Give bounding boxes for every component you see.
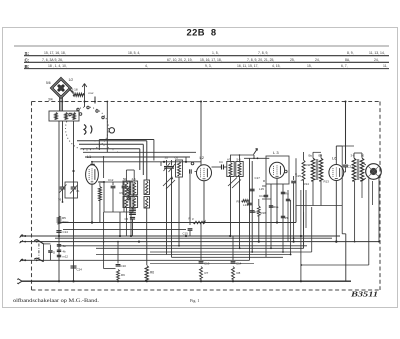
wire L1 down	[91, 186, 93, 223]
wire det vertical a	[249, 158, 251, 260]
svg-text:R7: R7	[205, 271, 209, 275]
svg-text:R: R	[263, 179, 265, 183]
wire T2 bottoms	[230, 177, 232, 191]
wire left vertical b	[62, 121, 64, 183]
switch blade a	[34, 240, 43, 244]
bus wire y257	[172, 256, 284, 258]
svg-text:C10: C10	[121, 264, 127, 268]
wire speaker down	[368, 179, 370, 266]
bus wire y229	[63, 228, 186, 230]
svg-text:R5: R5	[237, 200, 241, 204]
svg-text:R1a: R1a	[273, 205, 279, 209]
capacitor C4 series	[221, 165, 223, 170]
svg-text:C14: C14	[236, 262, 242, 266]
bus wire y238	[55, 237, 332, 239]
wire trimmer drops	[166, 176, 168, 255]
scale row C line	[24, 61, 389, 63]
svg-text:15, 17, 16, 18,: 15, 17, 16, 18,	[44, 51, 66, 55]
return wire a	[265, 184, 267, 257]
svg-text:7, 8, 9, 20, 21, 25,: 7, 8, 9, 20, 21, 25,	[247, 58, 274, 62]
svg-text:C13: C13	[259, 194, 265, 198]
svg-text:C6: C6	[175, 156, 179, 160]
ground bus bottom	[22, 280, 351, 282]
svg-text:16, 11, 15, 17,: 16, 11, 15, 17,	[237, 64, 258, 68]
chassis dashed border bottom	[32, 289, 381, 291]
wire switch long row 5	[85, 156, 190, 158]
resistor R8	[232, 267, 235, 280]
svg-text:R5: R5	[62, 216, 66, 220]
wire output transformer bottom	[354, 181, 356, 242]
svg-text:Fig. 1: Fig. 1	[190, 298, 199, 303]
svg-text:R16: R16	[261, 211, 267, 215]
wire from chassis top right	[345, 102, 347, 165]
svg-text:7b: 7b	[76, 189, 80, 193]
aerial coil box L0	[49, 111, 79, 121]
wire L3 down	[276, 178, 278, 222]
wire bundle box top	[99, 139, 154, 141]
svg-text:C15: C15	[183, 232, 189, 236]
scale row S line	[24, 55, 389, 57]
capacitor T1 c1	[129, 208, 136, 210]
coupling loop wire	[104, 182, 133, 212]
svg-text:18, 5, 4,: 18, 5, 4,	[128, 51, 140, 55]
coil box contact	[79, 113, 82, 116]
terminal arrow a	[20, 235, 24, 238]
capacitor C12	[112, 182, 114, 185]
svg-text:24,: 24,	[315, 58, 320, 62]
output transformer secondary	[360, 158, 364, 181]
wire drop to IFT1 a	[146, 141, 148, 180]
svg-text:C17: C17	[255, 176, 261, 180]
wire T1 bottoms	[132, 219, 134, 236]
band switch contacts	[69, 113, 71, 115]
wire right corner up	[345, 234, 347, 281]
output transformer primary	[352, 158, 356, 181]
svg-text:olfbandschakelaar op M.G.-Ba: olfbandschakelaar op M.G.-Band.	[13, 299, 99, 304]
svg-text:mw: mw	[89, 91, 95, 95]
switch frame	[43, 244, 45, 262]
resistor R16	[257, 206, 260, 216]
wire det vertical b	[251, 161, 253, 252]
svg-text:Bv: Bv	[319, 154, 323, 158]
svg-text:25,: 25,	[290, 58, 295, 62]
wire frame antenna to coupling coil	[70, 90, 75, 95]
wire L2 down	[203, 181, 205, 223]
capacitor C25	[281, 191, 285, 193]
aerial junction on chassis	[84, 101, 86, 103]
svg-text:L 3: L 3	[273, 150, 279, 155]
wire top inner vertical	[106, 102, 108, 153]
resistor R9	[117, 270, 120, 280]
svg-text:L15: L15	[259, 187, 264, 191]
terminal arrow b	[20, 259, 24, 262]
wire trimmer tops	[92, 161, 201, 163]
svg-text:1/2: 1/2	[69, 78, 74, 82]
wire speaker leads	[362, 162, 366, 165]
return wire b	[305, 190, 307, 228]
L2 grid contact circle	[191, 162, 194, 165]
svg-text:3/4: 3/4	[48, 98, 53, 102]
wire switch row 2	[79, 143, 143, 145]
svg-text:4b: 4b	[63, 249, 67, 253]
bus wire y260	[32, 259, 250, 261]
trimmer C5	[166, 160, 168, 166]
IF transformer T1 box d	[131, 197, 138, 208]
svg-text:8, 9,: 8, 9,	[347, 51, 354, 55]
svg-text:Ra: Ra	[285, 192, 289, 196]
band switch rotor coil	[84, 125, 92, 135]
capacitor C22	[265, 190, 267, 194]
switch blade b	[34, 258, 43, 262]
bus wire y265	[150, 262, 254, 264]
svg-text:Bo: Bo	[309, 154, 313, 158]
component D	[49, 245, 51, 250]
svg-text:6, 7,: 6, 7,	[341, 64, 348, 68]
tube L4	[329, 165, 344, 181]
capacitor C17	[250, 188, 255, 190]
svg-text:L1: L1	[87, 154, 92, 159]
wire L2 grid cap from top	[200, 102, 202, 166]
wire det top	[244, 157, 269, 159]
bus wire y254	[96, 254, 291, 256]
return wire c	[300, 190, 302, 236]
svg-text:11,: 11,	[383, 64, 388, 68]
capacitor L2 left stub	[195, 171, 197, 173]
frame antenna outer loop	[51, 78, 72, 99]
svg-text:22B 8: 22B 8	[187, 27, 217, 38]
coupling coil 5,6-18	[73, 93, 84, 96]
aerial symbol	[82, 84, 87, 96]
svg-text:76: 76	[58, 198, 62, 202]
svg-text:4a: 4a	[63, 244, 67, 248]
wire af vertical2	[290, 200, 292, 255]
capacitor C10	[117, 242, 119, 264]
resistor R2 cathode	[98, 187, 101, 201]
wire T2 top link	[231, 155, 255, 162]
resistor R5 left	[57, 216, 60, 224]
resistor R5 mid	[242, 200, 250, 203]
svg-text:9, 3,: 9, 3,	[205, 64, 212, 68]
tube L3 shield box	[266, 156, 289, 184]
svg-text:m12: m12	[63, 255, 69, 259]
bus wire y245	[59, 245, 307, 247]
bus wire y260 left lead	[20, 259, 32, 261]
resistor R4	[128, 186, 131, 200]
chassis dashed border left	[31, 102, 33, 291]
svg-text:4-5: 4-5	[132, 177, 136, 181]
wire left vertical a	[58, 121, 60, 236]
capacitor 4a	[57, 244, 61, 246]
svg-text:R9: R9	[121, 273, 125, 277]
capacitor C19 af	[293, 176, 295, 180]
svg-text:4,: 4,	[145, 64, 148, 68]
avc arrow	[254, 149, 258, 155]
tube L3	[269, 162, 284, 178]
svg-text:R14: R14	[304, 182, 310, 186]
driver transformer secondary	[319, 158, 323, 181]
capacitor C24	[71, 265, 77, 267]
wire L1 plate side	[98, 181, 104, 183]
wire right y205	[296, 205, 342, 207]
wire L2 plate	[212, 166, 222, 168]
svg-text:C24: C24	[77, 268, 83, 272]
svg-text:15,: 15,	[307, 64, 312, 68]
dial cord dots	[94, 140, 97, 143]
wire switch row 1	[77, 140, 147, 142]
capacitor C23	[270, 200, 272, 204]
capacitor C19b	[232, 236, 234, 261]
IF transformer T2 box b	[236, 162, 243, 177]
wire coil to aerial junction	[84, 94, 85, 96]
svg-text:11, 13, 14,: 11, 13, 14,	[369, 51, 385, 55]
wire switch row 3	[81, 148, 140, 150]
L3 side contact	[285, 170, 288, 173]
scale row B line	[24, 68, 389, 70]
wire transformer top	[312, 152, 314, 158]
junction caps	[72, 170, 74, 172]
speaker	[366, 164, 382, 180]
svg-text:L13: L13	[243, 203, 248, 207]
capacitor C13	[123, 182, 125, 185]
capacitor det 288	[286, 198, 290, 200]
driver transformer primary	[311, 158, 315, 181]
svg-text:R13: R13	[324, 180, 330, 184]
svg-text:15, 16, 17, 18,: 15, 16, 17, 18,	[200, 58, 222, 62]
capacitor 4b	[57, 249, 61, 251]
capacitor T1 c2	[129, 212, 136, 214]
wire det cluster v288	[287, 190, 289, 242]
chassis dashed border top	[32, 101, 381, 103]
tube L2	[197, 165, 212, 181]
aerial stub mw	[94, 97, 96, 104]
junction dots chassis top	[62, 101, 64, 103]
capacitor m12	[57, 254, 61, 256]
wire caps to ground bus	[62, 196, 64, 202]
wire L1 grid top	[90, 164, 94, 166]
capacitor C16	[200, 223, 202, 261]
svg-text:4, 15,: 4, 15,	[272, 64, 281, 68]
svg-text:67, 10, 20, 2, 19,: 67, 10, 20, 2, 19,	[167, 58, 193, 62]
frame antenna down leads	[59, 98, 61, 112]
wire af vertical	[295, 158, 297, 222]
capacitor C5 bottom	[130, 216, 135, 218]
IF transformer T1 box c	[123, 197, 130, 208]
IF transformer T1 box a	[123, 181, 130, 195]
IF transformer T1 box b	[131, 181, 138, 195]
wire T1 tops	[125, 170, 127, 181]
bus wire y241 left lead	[20, 241, 32, 243]
svg-text:R8: R8	[237, 271, 241, 275]
trimmer capacitor C2	[73, 171, 75, 187]
svg-text:B3511: B3511	[350, 291, 378, 299]
wire L4 down	[335, 181, 337, 242]
wire L4 top	[335, 146, 337, 165]
wire left vertical a2	[58, 236, 60, 281]
driver transformer core	[315, 159, 317, 180]
svg-text:C14: C14	[63, 230, 69, 234]
svg-text:5/6: 5/6	[46, 81, 51, 85]
T2 trim arrows	[228, 178, 241, 189]
wire cluster drops	[112, 196, 114, 212]
wire transformer bottoms	[312, 181, 314, 206]
padder arrows	[163, 177, 175, 189]
chassis dashed border right	[379, 102, 381, 291]
capacitor C18	[247, 202, 252, 204]
wire L1 cathode	[91, 183, 93, 186]
variable capacitor C1	[62, 183, 64, 187]
svg-text:30kΩ: 30kΩ	[62, 220, 68, 224]
trimmer C6	[171, 160, 173, 166]
svg-text:50: 50	[361, 154, 365, 158]
svg-text:7, 6, 3A 9, 26,: 7, 6, 3A 9, 26,	[42, 58, 63, 62]
svg-text:8A,: 8A,	[345, 58, 350, 62]
frame antenna centre winding	[58, 85, 64, 91]
wire output transformer top	[353, 153, 355, 158]
svg-text:5-3: 5-3	[237, 157, 241, 161]
capacitor C15 small	[189, 174, 191, 225]
oscillator coil box	[176, 160, 183, 177]
wire right v296	[295, 206, 297, 223]
header rule top	[14, 45, 389, 47]
terminal arrow c	[17, 279, 22, 285]
output transformer core	[356, 159, 358, 180]
coil box L11 L12	[144, 180, 150, 195]
bus wire y241	[32, 241, 380, 243]
svg-text:S5: S5	[165, 156, 169, 160]
wire right y233	[342, 233, 346, 235]
tube L1	[86, 165, 99, 185]
resistor R6	[146, 242, 148, 265]
IF transformer T2 box a	[227, 162, 234, 177]
svg-text:5,6 18: 5,6 18	[69, 88, 78, 92]
trimmer box	[65, 182, 78, 198]
svg-text:R11: R11	[306, 163, 311, 167]
capacitor C20	[250, 210, 255, 212]
band switch hub circle	[109, 128, 114, 133]
svg-text:24,: 24,	[374, 58, 379, 62]
svg-text:R6: R6	[150, 271, 154, 275]
wire det cluster h	[262, 198, 271, 200]
svg-text:1, 5,: 1, 5,	[212, 51, 219, 55]
bus wire y236	[32, 235, 341, 237]
svg-text:R: R	[189, 217, 191, 221]
svg-text:7, 8, 9,: 7, 8, 9,	[258, 51, 268, 55]
wire right v300 down	[300, 236, 302, 281]
svg-text:C12: C12	[108, 178, 114, 182]
band switch dotted circle	[108, 128, 109, 129]
capacitor C26	[281, 215, 285, 217]
wire switch long row 4	[83, 151, 196, 153]
bus wire y236 left lead	[20, 235, 32, 237]
svg-text:C16: C16	[204, 262, 210, 266]
capacitor C21	[343, 164, 348, 166]
capacitor C14 left	[56, 230, 61, 232]
wire speaker return	[301, 264, 369, 266]
bus wire y222	[58, 222, 60, 224]
svg-text:L2: L2	[200, 155, 205, 160]
switch link dashdot	[38, 244, 40, 260]
svg-text:18 , 1, 4, 10,: 18 , 1, 4, 10,	[48, 64, 67, 68]
resistor R11	[302, 160, 305, 180]
svg-text:C4: C4	[219, 160, 223, 164]
resistor R7	[200, 267, 203, 280]
bus wire y248	[96, 247, 304, 249]
bus wire y252	[150, 251, 312, 253]
